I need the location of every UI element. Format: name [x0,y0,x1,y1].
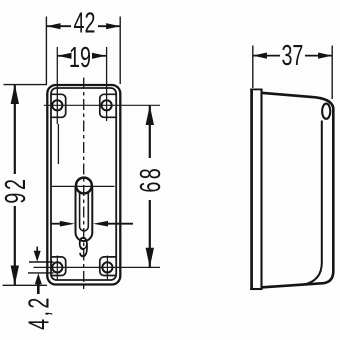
side view flange bottom cap [250,288,262,290]
dimension 68 text [135,166,167,193]
svg-text:19: 19 [69,42,91,74]
keyhole circle [76,178,92,194]
svg-text:42: 42 [74,8,96,40]
dimension 37 line left segment with arrow [253,53,280,59]
svg-text:68: 68 [135,166,167,193]
dimension 4,2 upper leader line [29,261,54,263]
dimension 9 left arrow line [52,221,75,227]
svg-text:92: 92 [0,176,32,203]
dimension 68 line upper segment with up arrow [146,106,154,159]
dimension 9 right arrow line [93,221,133,227]
dimension 19 line right segment with arrow [92,53,106,59]
dimension 4,2 lower leader line [28,272,54,274]
top holes horizontal center line [44,104,160,106]
dimension 92 line lower segment with down arrow [11,206,19,285]
keyhole horizontal center line [52,185,115,187]
side view inner edge line [303,121,322,285]
top-right mounting hole [102,100,112,110]
side view rivet oval [322,104,330,119]
top-left mounting hole [52,100,62,110]
bottom-right hole vertical center line [106,256,108,280]
bottom holes horizontal center line [34,266,161,268]
side view flange left edge [250,89,253,291]
boss around bottom-left hole [52,257,66,276]
boss around top-right hole [100,94,116,117]
side view flange right edge [260,90,262,289]
dimension 37 line right segment with arrow [305,53,332,59]
dimension 4,2 text [24,295,56,330]
dimension 42 text [74,8,96,40]
dimension 92 text [0,176,32,203]
dimension 42 line left segment with arrow [46,23,71,29]
vertical dashed center line [83,78,85,291]
bottom-right mounting hole [102,262,112,272]
top-left hole vertical center line / 19 extension [57,47,58,164]
dimension 92 bottom extension line [3,284,48,286]
dimension 19 line left segment with arrow [58,53,72,59]
top-right hole vertical center line / 19 extension [106,47,108,121]
dimension 37 left extension line [252,46,254,89]
front view inner rim [51,88,116,280]
dimension 9 text [78,232,89,264]
dimension 92 line upper segment with up arrow [11,84,19,174]
dimension 19 text [69,42,91,74]
side view body outer contour [261,93,333,287]
side view flange top cap [250,88,262,90]
bottom-left hole vertical center line [56,256,58,280]
svg-text:9: 9 [78,232,89,264]
dimension 37 right extension line [331,46,333,100]
front view outer outline [47,85,120,285]
dimension 42 line right segment with arrow [98,23,120,29]
keyhole inner slot [80,193,89,231]
boss around bottom-right hole [100,257,116,276]
dimension 42 right extension line [119,17,121,85]
dimension 92 top extension line [4,84,48,86]
boss around top-left hole [52,94,66,117]
keyhole outer slot [76,186,93,241]
dimension 68 line lower segment with down arrow [146,200,154,267]
dimension 4,2 down arrow [34,247,41,262]
dimension 4,2 up arrow [35,273,42,294]
dimension 37 text [281,40,303,72]
bottom-left mounting hole [52,262,62,272]
svg-text:4,2: 4,2 [24,295,56,330]
dimension 42 left extension line [45,17,47,85]
svg-text:37: 37 [281,40,303,72]
